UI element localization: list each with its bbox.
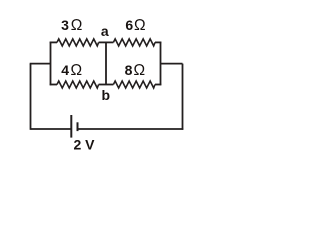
- svg-text:Ω: Ω: [71, 62, 83, 79]
- svg-text:3: 3: [61, 17, 69, 33]
- resistor R3 4 ohm zigzag: [57, 81, 99, 88]
- svg-text:Ω: Ω: [71, 17, 83, 34]
- svg-text:Ω: Ω: [134, 62, 146, 79]
- wire: left bus of parallel block: [50, 42, 52, 86]
- wire: outer loop left vertical: [30, 64, 32, 130]
- svg-text:Ω: Ω: [134, 17, 146, 34]
- svg-text:b: b: [102, 87, 111, 103]
- svg-text:a: a: [101, 23, 109, 39]
- wire: top branch left stub: [50, 41, 57, 43]
- svg-text:2 V: 2 V: [73, 137, 95, 153]
- wire: bottom branch left stub: [50, 84, 57, 86]
- wire: bottom branch middle (node b segment): [99, 84, 114, 86]
- battery B1 short plate (negative): [77, 122, 79, 131]
- wire: outer loop bottom left segment to battery: [31, 128, 71, 130]
- wire: outer loop bottom right segment from battery: [78, 128, 184, 130]
- wire: right bus of parallel block: [160, 42, 162, 86]
- wire: vertical link node a to node b: [105, 42, 107, 84]
- wire: top branch right stub: [155, 41, 161, 43]
- resistor R2 6 ohm zigzag: [113, 39, 155, 46]
- wire: left connector from outer loop to left bus: [30, 63, 51, 65]
- resistor R1 3 ohm zigzag: [57, 39, 99, 46]
- svg-text:4: 4: [61, 62, 69, 78]
- resistor R4 8 ohm zigzag: [113, 81, 155, 88]
- svg-text:8: 8: [125, 62, 133, 78]
- wire: outer loop right vertical: [182, 64, 184, 130]
- wire: top branch middle (node a segment): [99, 41, 114, 43]
- wire: right connector from right bus to outer loop: [161, 63, 183, 65]
- battery B1 long plate (positive): [70, 115, 72, 138]
- svg-text:6: 6: [125, 17, 133, 33]
- wire: bottom branch right stub: [155, 84, 161, 86]
